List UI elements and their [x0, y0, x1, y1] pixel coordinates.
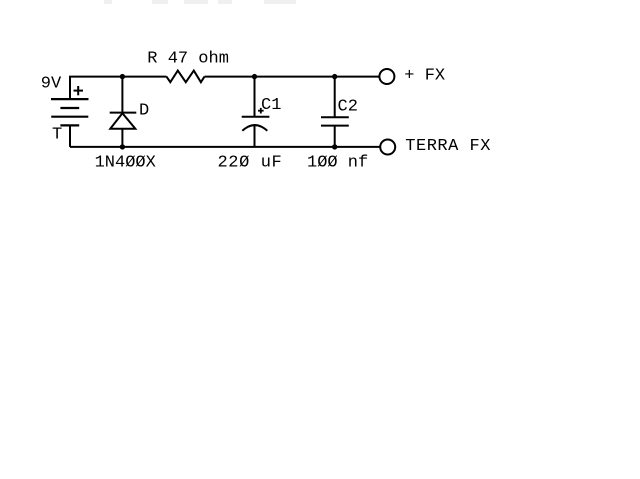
resistor R1 zigzag	[167, 71, 205, 83]
svg-text:+ FX: + FX	[404, 67, 445, 86]
wire: battery + lead to top rail	[69, 77, 71, 100]
node: top rail / C1 junction	[252, 74, 257, 79]
wire: top rail left segment (battery to resistor)	[69, 76, 167, 78]
wire: top rail right segment (resistor to +FX terminal)	[205, 76, 380, 78]
svg-text:22Ø uF: 22Ø uF	[218, 154, 283, 173]
svg-text:T: T	[52, 126, 62, 145]
capacitor C2	[321, 77, 349, 147]
terminal + FX	[379, 69, 394, 84]
svg-text:D: D	[139, 101, 149, 120]
wire: battery - lead to bottom rail	[69, 125, 71, 146]
battery B1 9V	[51, 99, 89, 125]
wire: bottom rail (battery - to TERRA FX terminal)	[70, 146, 380, 148]
diode D	[110, 77, 137, 147]
terminal TERRA FX	[380, 140, 395, 155]
label: battery + polarity	[74, 86, 84, 95]
label: C1 + polarity	[258, 108, 264, 114]
svg-text:9V: 9V	[41, 75, 62, 94]
cropped text remnants at top edge	[104, 0, 296, 4]
svg-text:C1: C1	[261, 96, 281, 115]
svg-text:C2: C2	[338, 98, 358, 117]
node: bottom rail / C2 junction	[332, 144, 337, 149]
svg-text:1ØØ nf: 1ØØ nf	[307, 154, 368, 173]
node: top rail / diode junction	[120, 74, 125, 79]
node: bottom rail / diode junction	[120, 144, 125, 149]
svg-text:1N4ØØX: 1N4ØØX	[95, 154, 156, 173]
svg-text:TERRA FX: TERRA FX	[405, 137, 491, 156]
node: top rail / C2 junction	[332, 74, 337, 79]
svg-text:R 47 ohm: R 47 ohm	[147, 50, 229, 69]
capacitor C1 electrolytic	[242, 77, 270, 147]
